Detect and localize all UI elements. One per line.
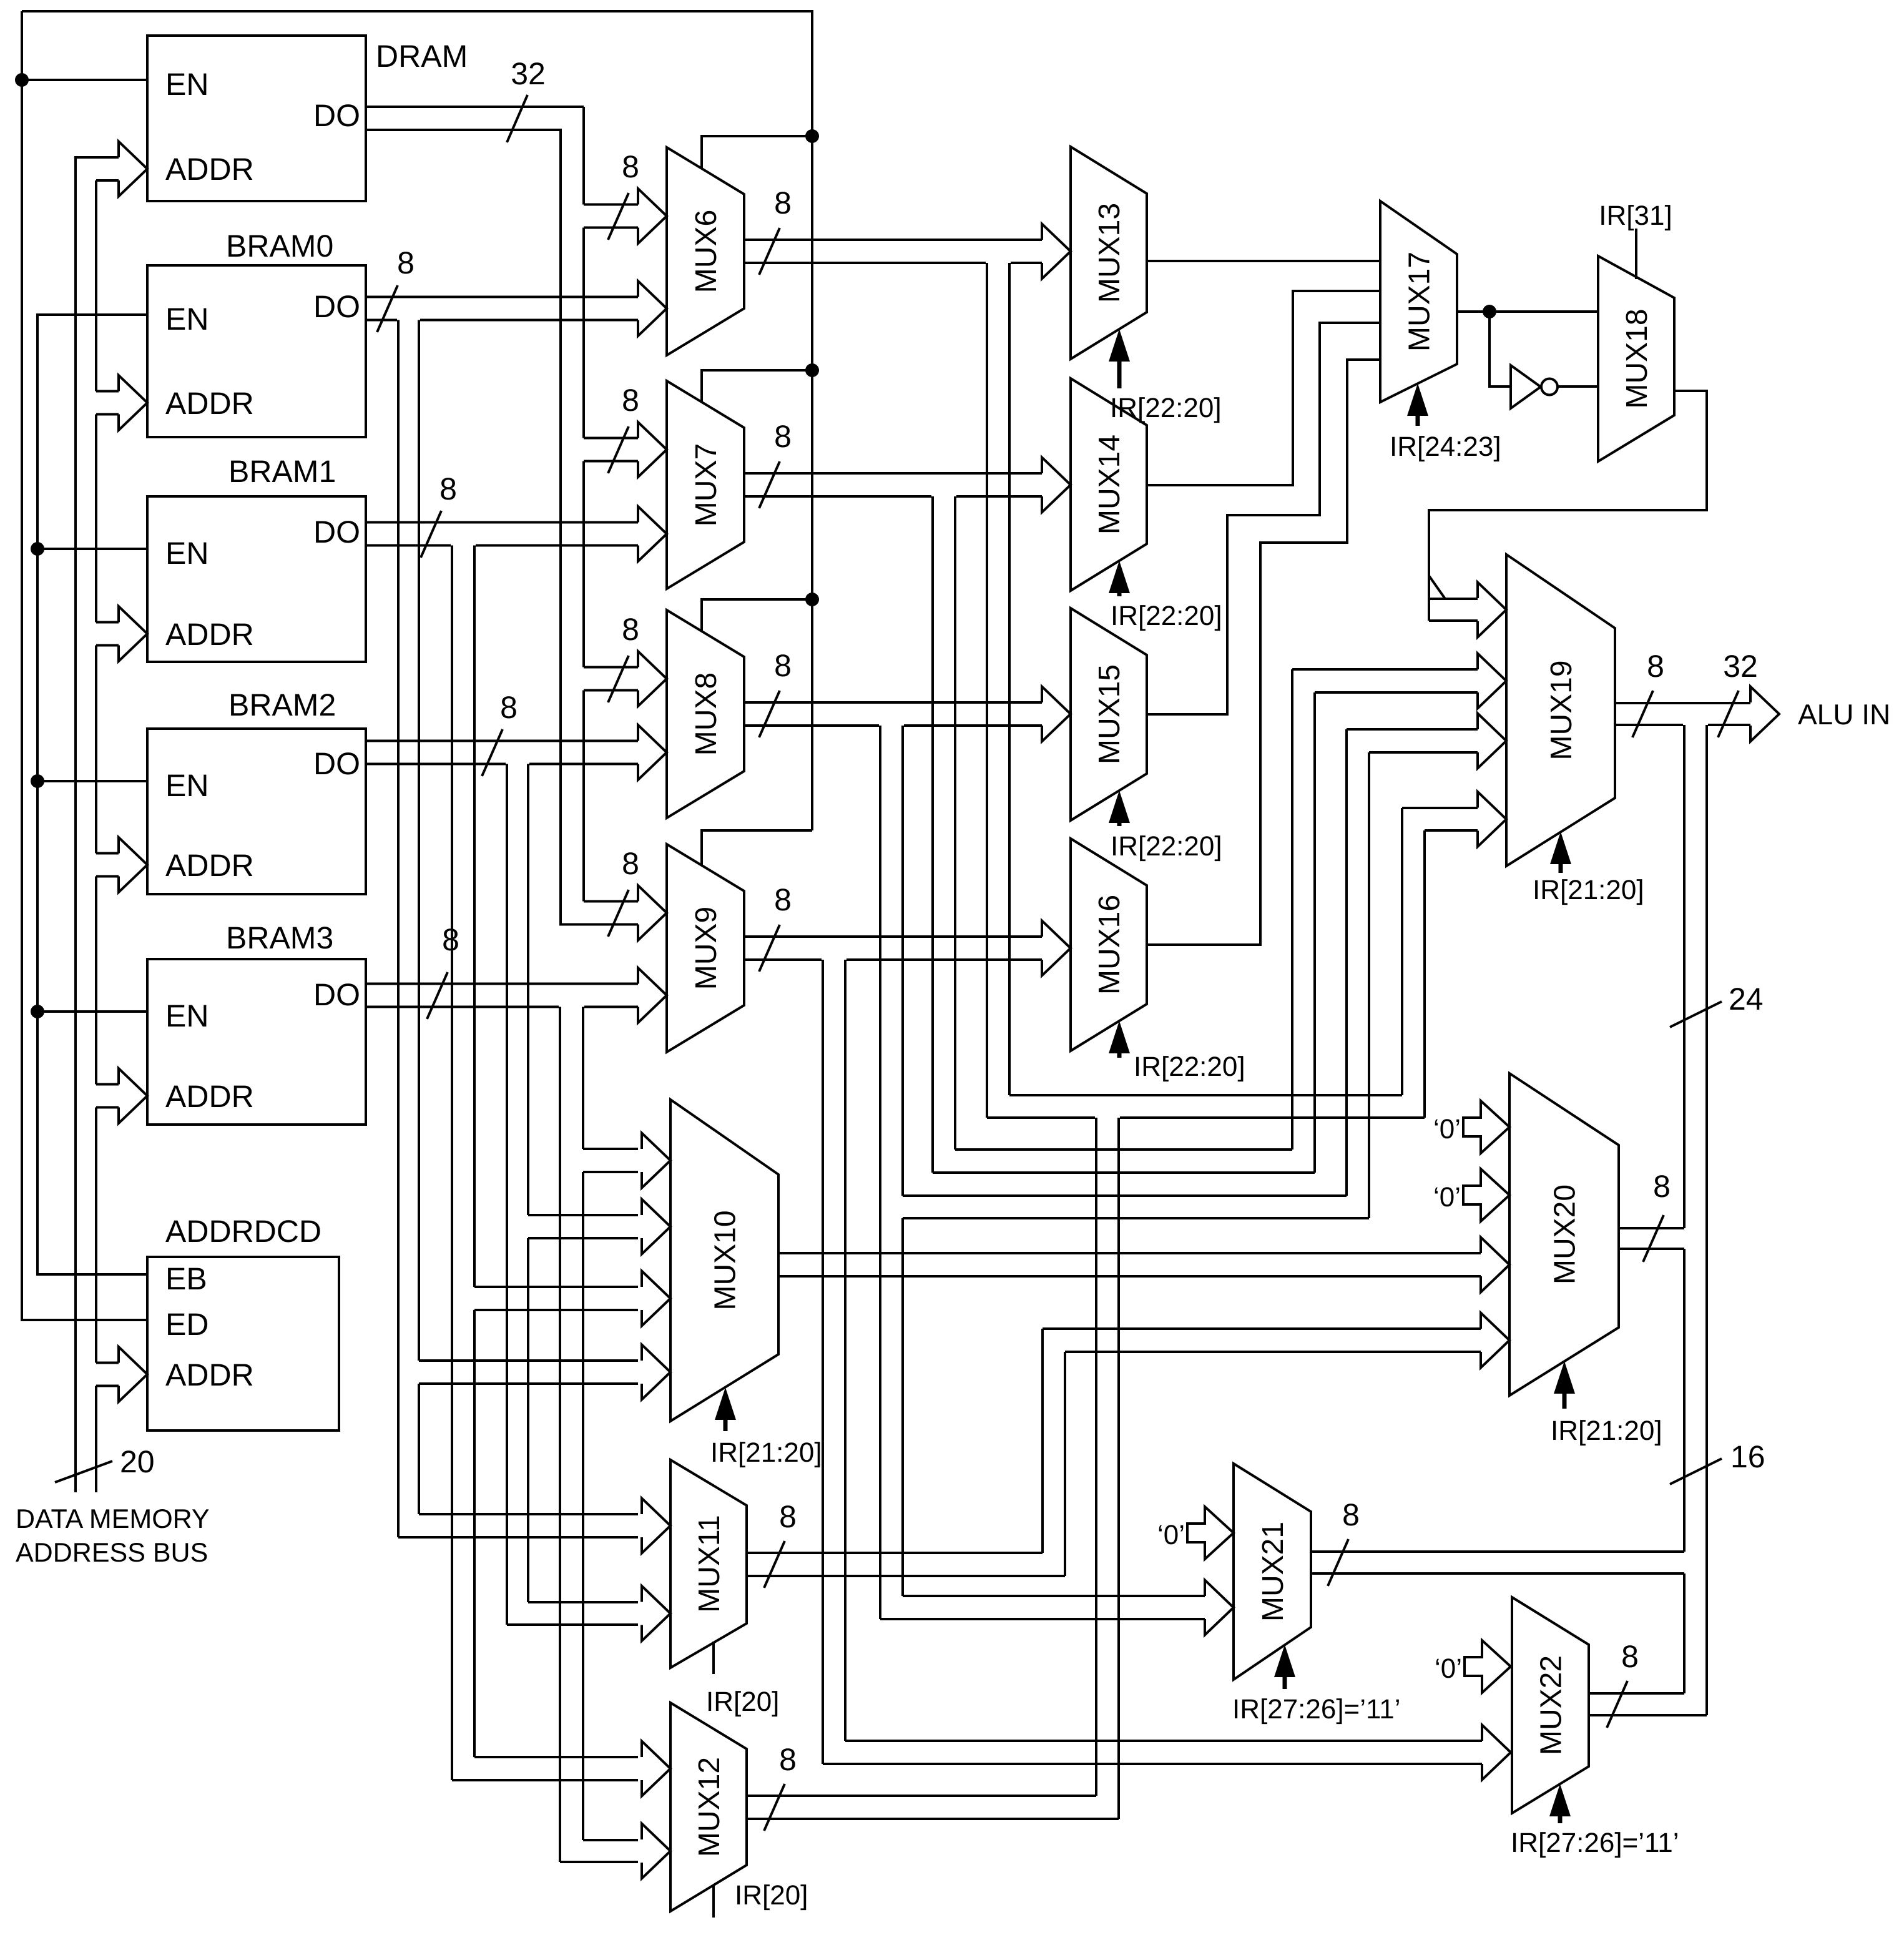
slash 8 MUX7 out bbox=[759, 461, 780, 508]
svg-text:MUX12: MUX12 bbox=[693, 1757, 726, 1857]
arrowhead DRAM ADDR bbox=[119, 142, 147, 197]
slash 20 data memory address bus bbox=[55, 1461, 112, 1482]
wire IR[31] select of MUX18 bbox=[1635, 229, 1637, 279]
node dot MUX6 select bbox=[805, 129, 819, 143]
bus P1 BRAM0 branch down to MUX10 in4 / MUX11 in1 bbox=[397, 320, 400, 1538]
arrowhead MUX10 in3 bbox=[642, 1271, 670, 1326]
bus P3 BRAM2 branch down to MUX10 in2 / MUX11 in2 bbox=[506, 764, 508, 1625]
wire MUX13 out to MUX17 in1 bbox=[1147, 260, 1380, 262]
bus BRAM1 DO 8-bit to MUX7 in2 bbox=[366, 521, 638, 524]
mux MUX22 bbox=[1512, 1597, 1589, 1813]
mux MUX20 bbox=[1509, 1073, 1619, 1396]
bus BRAM3 DO 8-bit to MUX9 in2 bbox=[366, 983, 638, 985]
select stub MUX12 IR[20] bbox=[712, 1884, 715, 1918]
svg-text:8: 8 bbox=[1621, 1639, 1639, 1674]
wire BRAM3 EN bbox=[37, 1010, 147, 1013]
wire MUX18 out to MUX19 in1 bbox=[1429, 391, 1707, 621]
bus MUX8 out 8-bit to MUX15 bbox=[744, 701, 1042, 704]
arrowhead MUX14 in bbox=[1042, 458, 1071, 513]
bus MUX9 out 8-bit to MUX16 bbox=[744, 935, 1042, 938]
svg-text:8: 8 bbox=[1342, 1497, 1360, 1532]
bus data memory address 20-bit bbox=[76, 157, 119, 1492]
mux MUX15 bbox=[1071, 608, 1147, 820]
slash 8 MUX7 in1 bbox=[608, 426, 629, 473]
wire EN rail top bbox=[22, 11, 812, 830]
constant 0 arrow MUX20 in1 bbox=[1463, 1101, 1509, 1153]
svg-text:8: 8 bbox=[622, 612, 639, 647]
svg-text:ADDR: ADDR bbox=[165, 386, 254, 421]
mux MUX9 bbox=[667, 844, 744, 1052]
svg-text:IR[24:23]: IR[24:23] bbox=[1390, 431, 1501, 462]
mux MUX18 bbox=[1598, 256, 1674, 461]
memory block BRAM1 bbox=[147, 496, 366, 662]
memory block BRAM0 bbox=[147, 265, 366, 437]
mux MUX12 bbox=[670, 1703, 747, 1911]
memory block BRAM3 bbox=[147, 959, 366, 1125]
address decoder ADDRDCD bbox=[147, 1257, 339, 1430]
mux MUX11 bbox=[670, 1460, 747, 1668]
svg-text:MUX22: MUX22 bbox=[1535, 1655, 1568, 1755]
svg-text:DO: DO bbox=[313, 98, 360, 133]
arrowhead MUX21 in2 bbox=[1205, 1580, 1234, 1635]
slash 8 MUX8 out bbox=[759, 691, 780, 737]
svg-text:ADDRDCD: ADDRDCD bbox=[165, 1214, 321, 1249]
svg-text:20: 20 bbox=[120, 1444, 155, 1479]
bus Q9 branch MUX9 out down to MUX22 in2 bbox=[822, 960, 824, 1764]
slash 8 BRAM0 DO bbox=[377, 285, 398, 332]
arrowhead ALU IN bbox=[1750, 687, 1779, 742]
svg-text:MUX16: MUX16 bbox=[1093, 895, 1126, 995]
constant 0 arrow MUX20 in2 bbox=[1463, 1169, 1509, 1221]
mux MUX14 bbox=[1071, 378, 1147, 591]
svg-text:DO: DO bbox=[313, 746, 360, 781]
select MUX21 IR[27:26]='11' bbox=[1274, 1645, 1295, 1677]
svg-text:IR[21:20]: IR[21:20] bbox=[1551, 1416, 1662, 1446]
svg-text:IR[20]: IR[20] bbox=[706, 1686, 779, 1717]
bus Q8 branch MUX8 out down to MUX19 in3 and MUX21 in2 bbox=[879, 726, 881, 1619]
slash 8 MUX19 out bbox=[1632, 691, 1653, 737]
svg-text:MUX19: MUX19 bbox=[1545, 660, 1578, 760]
bus MUX10 out 8-bit to MUX20 in3 bbox=[778, 1252, 1481, 1254]
node dot MUX7 select bbox=[805, 363, 819, 377]
svg-text:8: 8 bbox=[622, 846, 639, 881]
svg-text:32: 32 bbox=[1723, 649, 1758, 684]
arrowhead MUX16 in bbox=[1042, 921, 1071, 976]
svg-text:IR[22:20]: IR[22:20] bbox=[1134, 1051, 1245, 1082]
svg-text:ED: ED bbox=[165, 1307, 209, 1342]
wire DRAM EN bbox=[22, 79, 147, 81]
svg-text:BRAM3: BRAM3 bbox=[226, 920, 333, 955]
wire MUX17 out branch to inverter bbox=[1489, 312, 1509, 387]
svg-text:24: 24 bbox=[1729, 982, 1764, 1017]
select MUX13 IR[22:20] bbox=[1109, 329, 1130, 362]
svg-text:8: 8 bbox=[1647, 649, 1664, 684]
svg-text:IR[22:20]: IR[22:20] bbox=[1111, 601, 1222, 631]
svg-text:8: 8 bbox=[774, 882, 792, 917]
svg-text:IR[31]: IR[31] bbox=[1599, 200, 1672, 231]
mux MUX16 bbox=[1071, 839, 1147, 1051]
svg-text:ADDR: ADDR bbox=[165, 152, 254, 187]
mux MUX13 bbox=[1071, 147, 1147, 359]
svg-text:8: 8 bbox=[439, 471, 457, 506]
slash 8 MUX9 in1 bbox=[608, 890, 629, 937]
mux MUX8 bbox=[667, 610, 744, 818]
svg-text:ALU IN: ALU IN bbox=[1798, 698, 1890, 731]
arrowhead MUX20 in4 bbox=[1481, 1313, 1509, 1368]
svg-text:IR[27:26]=’11’: IR[27:26]=’11’ bbox=[1511, 1828, 1679, 1858]
svg-text:DO: DO bbox=[313, 977, 360, 1012]
arrowhead MUX10 in1 bbox=[642, 1133, 670, 1188]
arrowhead MUX19 in2 bbox=[1478, 654, 1506, 709]
wire MUX16 out to MUX17 in4 bbox=[1147, 360, 1380, 945]
node dot BRAM2 EN bbox=[31, 774, 44, 788]
svg-text:BRAM0: BRAM0 bbox=[226, 229, 333, 263]
svg-text:MUX9: MUX9 bbox=[690, 907, 723, 990]
svg-text:DO: DO bbox=[313, 515, 360, 549]
svg-text:8: 8 bbox=[397, 245, 415, 280]
svg-text:‘0’: ‘0’ bbox=[1433, 1182, 1461, 1213]
bus P4 BRAM3 branch down to MUX10 in1 / MUX12 in2 bbox=[559, 1007, 561, 1863]
svg-text:‘0’: ‘0’ bbox=[1157, 1520, 1185, 1550]
svg-text:BRAM2: BRAM2 bbox=[228, 687, 336, 722]
mux MUX17 bbox=[1380, 201, 1457, 402]
svg-text:BRAM1: BRAM1 bbox=[228, 454, 336, 489]
svg-text:EN: EN bbox=[165, 67, 209, 102]
svg-text:MUX20: MUX20 bbox=[1549, 1184, 1582, 1284]
svg-text:EN: EN bbox=[165, 302, 209, 337]
svg-text:8: 8 bbox=[500, 690, 518, 725]
bus MUX21 out 8-bit bbox=[1311, 1550, 1684, 1553]
bus MUX20 out 8-bit bbox=[1619, 1227, 1684, 1229]
svg-text:‘0’: ‘0’ bbox=[1433, 1114, 1461, 1145]
bus MUX12 out 8-bit up joining MUX19 in4 bus bbox=[747, 1795, 1096, 1797]
arrowhead MUX9 in1 bbox=[638, 885, 667, 940]
arrowhead MUX8 in1 bbox=[638, 651, 667, 706]
bus MUX11 out 8-bit up to MUX20 in4 bbox=[747, 1552, 1043, 1554]
bus P2 BRAM1 branch down to MUX10 in3 / MUX12 in1 bbox=[451, 546, 453, 1781]
svg-text:MUX18: MUX18 bbox=[1621, 308, 1654, 408]
wire inverter out to MUX18 in2 bbox=[1558, 385, 1598, 388]
arrowhead MUX7 in1 bbox=[638, 422, 667, 477]
svg-text:32: 32 bbox=[511, 56, 546, 91]
bus BRAM0 DO 8-bit to MUX6 in2 bbox=[366, 296, 638, 298]
wire MUX14 out to MUX17 in2 bbox=[1147, 291, 1380, 485]
bus MUX22 out 8-bit bbox=[1589, 1692, 1684, 1695]
wire MUX8 select stub bbox=[702, 599, 812, 631]
svg-text:MUX13: MUX13 bbox=[1093, 203, 1126, 303]
wire MUX7 select stub bbox=[702, 370, 812, 403]
svg-text:ADDR: ADDR bbox=[165, 617, 254, 652]
svg-text:MUX11: MUX11 bbox=[693, 1515, 726, 1613]
bus output merge vertical 24/16-bit bbox=[1683, 725, 1686, 1228]
wire MUX15 out to MUX17 in3 bbox=[1147, 323, 1380, 714]
slash 8 BRAM3 DO bbox=[427, 972, 448, 1019]
svg-text:ADDR: ADDR bbox=[165, 848, 254, 883]
slash 16 merge bbox=[1670, 1459, 1722, 1484]
select MUX17 IR[24:23] bbox=[1407, 383, 1428, 416]
svg-text:EN: EN bbox=[165, 768, 209, 803]
node dot BRAM3 EN bbox=[31, 1005, 44, 1018]
slash 8 MUX12 out bbox=[764, 1784, 785, 1831]
node dot BRAM1 EN bbox=[31, 542, 44, 556]
arrowhead MUX10 in2 bbox=[642, 1199, 670, 1254]
arrowhead MUX13 in bbox=[1042, 224, 1071, 279]
svg-text:MUX7: MUX7 bbox=[690, 443, 723, 526]
svg-text:IR[21:20]: IR[21:20] bbox=[1533, 875, 1644, 905]
arrowhead MUX11 in1 bbox=[642, 1499, 670, 1554]
svg-text:MUX21: MUX21 bbox=[1257, 1522, 1290, 1622]
slash 32 DRAM DO bbox=[507, 95, 528, 142]
svg-text:IR[21:20]: IR[21:20] bbox=[710, 1437, 822, 1468]
slash 8 MUX22 out bbox=[1607, 1681, 1627, 1728]
node dot MUX8 select bbox=[805, 593, 819, 606]
svg-text:EN: EN bbox=[165, 536, 209, 571]
arrowhead MUX6 in1 bbox=[638, 189, 667, 244]
constant 0 arrow MUX21 in1 bbox=[1187, 1507, 1234, 1559]
arrowhead MUX10 in4 bbox=[642, 1345, 670, 1400]
svg-text:MUX14: MUX14 bbox=[1093, 435, 1126, 534]
node dot DRAM EN bbox=[15, 73, 29, 87]
wire BRAM EN chain x60 bbox=[37, 315, 147, 1274]
svg-text:‘0’: ‘0’ bbox=[1435, 1653, 1462, 1684]
svg-text:MUX8: MUX8 bbox=[690, 672, 723, 756]
svg-text:EB: EB bbox=[165, 1261, 207, 1296]
node dot MUX17 out bbox=[1483, 305, 1496, 318]
svg-text:16: 16 bbox=[1730, 1439, 1765, 1474]
arrowhead MUX12 in2 bbox=[642, 1824, 670, 1879]
svg-text:IR[27:26]=’11’: IR[27:26]=’11’ bbox=[1232, 1694, 1400, 1725]
slash 8 MUX8 in1 bbox=[608, 656, 629, 702]
mux MUX10 bbox=[670, 1100, 778, 1421]
svg-text:8: 8 bbox=[1653, 1169, 1671, 1204]
svg-text:DATA MEMORY: DATA MEMORY bbox=[16, 1504, 210, 1534]
svg-text:MUX6: MUX6 bbox=[690, 210, 723, 293]
select MUX20 IR[21:20] bbox=[1554, 1361, 1575, 1394]
arrowhead MUX15 in bbox=[1042, 687, 1071, 742]
select MUX19 IR[21:20] bbox=[1550, 832, 1571, 864]
arrowhead MUX11 in2 bbox=[642, 1586, 670, 1641]
slash 8 MUX11 out bbox=[764, 1541, 785, 1588]
arrowhead MUX19 in4 bbox=[1478, 792, 1506, 847]
svg-text:8: 8 bbox=[622, 383, 639, 418]
select MUX15 IR[22:20] bbox=[1109, 790, 1130, 823]
svg-text:ADDR: ADDR bbox=[165, 1079, 254, 1114]
bus MUX19 out to ALU IN bbox=[1615, 702, 1750, 704]
select MUX22 IR[27:26]='11' bbox=[1549, 1784, 1571, 1816]
svg-text:8: 8 bbox=[774, 185, 792, 220]
svg-text:EN: EN bbox=[165, 998, 209, 1033]
slash 8 BRAM1 DO bbox=[421, 511, 441, 558]
inverter bbox=[1511, 365, 1541, 408]
wire BRAM2 EN bbox=[37, 780, 147, 782]
svg-text:IR[22:20]: IR[22:20] bbox=[1111, 831, 1222, 862]
svg-text:MUX17: MUX17 bbox=[1403, 252, 1436, 352]
memory block DRAM bbox=[147, 36, 366, 201]
svg-text:ADDR: ADDR bbox=[165, 1357, 254, 1392]
bus Q7 branch MUX7 out down to MUX19 in2 bbox=[931, 496, 934, 1173]
bus Q6 branch MUX6 out down to MUX19 in4 bbox=[986, 263, 988, 1118]
memory block BRAM2 bbox=[147, 729, 366, 894]
bus BRAM2 DO 8-bit to MUX8 in2 bbox=[366, 740, 638, 742]
svg-text:8: 8 bbox=[779, 1742, 797, 1777]
mux MUX21 bbox=[1234, 1464, 1311, 1680]
mux MUX7 bbox=[667, 381, 744, 589]
wire BRAM1 EN bbox=[37, 548, 147, 550]
slash 8 MUX9 out bbox=[759, 925, 780, 972]
svg-text:IR[20]: IR[20] bbox=[735, 1880, 808, 1911]
slash 8 BRAM2 DO bbox=[482, 729, 503, 776]
svg-text:DO: DO bbox=[313, 289, 360, 324]
select MUX10 IR[21:20] bbox=[715, 1387, 736, 1420]
svg-text:IR[22:20]: IR[22:20] bbox=[1110, 393, 1222, 423]
svg-text:8: 8 bbox=[774, 419, 792, 454]
svg-text:MUX10: MUX10 bbox=[709, 1210, 742, 1310]
slash 8 MUX21 out bbox=[1328, 1539, 1348, 1586]
bus DRAM DO 32-bit bbox=[366, 106, 584, 108]
svg-text:MUX15: MUX15 bbox=[1093, 664, 1126, 764]
slash 8 MUX6 in1 bbox=[608, 193, 629, 240]
wire MUX9 select stub bbox=[702, 830, 812, 865]
mux MUX19 bbox=[1506, 554, 1615, 866]
wire MUX17 out to MUX18 in1 bbox=[1457, 310, 1598, 313]
select MUX16 IR[22:20] bbox=[1109, 1021, 1130, 1053]
svg-text:8: 8 bbox=[779, 1499, 797, 1534]
bus MUX6 out 8-bit to MUX13 bbox=[744, 239, 1042, 241]
svg-text:8: 8 bbox=[622, 149, 639, 184]
svg-text:ADDRESS BUS: ADDRESS BUS bbox=[16, 1538, 208, 1568]
arrowhead MUX20 in3 bbox=[1481, 1238, 1509, 1293]
arrowhead MUX19 in3 bbox=[1478, 714, 1506, 769]
arrowhead MUX22 in2 bbox=[1482, 1725, 1511, 1780]
select stub MUX11 IR[20] bbox=[712, 1642, 715, 1674]
mux MUX6 bbox=[667, 147, 744, 355]
wire MUX6 select stub bbox=[702, 136, 812, 169]
slash 24 merge bbox=[1670, 1002, 1722, 1027]
slash 32 ALU IN bbox=[1718, 691, 1739, 737]
arrowhead MUX12 in1 bbox=[642, 1741, 670, 1796]
svg-text:DRAM: DRAM bbox=[376, 39, 468, 74]
select MUX14 IR[22:20] bbox=[1109, 561, 1130, 593]
constant 0 arrow MUX22 in1 bbox=[1465, 1640, 1511, 1693]
slash 8 MUX6 out bbox=[759, 228, 780, 275]
svg-text:8: 8 bbox=[774, 648, 792, 683]
wire left vertical x35 to ED bbox=[22, 11, 147, 1320]
bus MUX7 out 8-bit to MUX14 bbox=[744, 472, 1042, 475]
slash 8 MUX20 out bbox=[1643, 1215, 1664, 1262]
arrowhead MUX19 in1 bbox=[1478, 583, 1506, 638]
